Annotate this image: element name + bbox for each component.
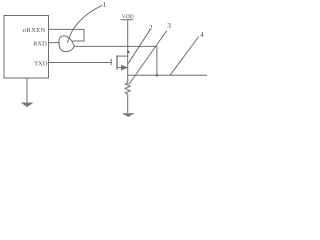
- svg-text:1: 1: [103, 0, 107, 9]
- svg-text:2: 2: [149, 23, 153, 32]
- svg-text:nRXEN: nRXEN: [23, 27, 46, 34]
- svg-text:VDD: VDD: [122, 14, 134, 20]
- svg-text:TXD: TXD: [34, 61, 48, 68]
- svg-text:4: 4: [200, 30, 204, 39]
- svg-text:3: 3: [167, 21, 171, 30]
- svg-text:RXD: RXD: [33, 40, 47, 47]
